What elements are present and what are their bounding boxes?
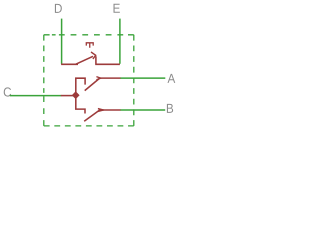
- node C junction diamond: [72, 91, 80, 99]
- component pin stub B: [99, 109, 121, 111]
- push switch S1 blade: [75, 56, 93, 64]
- changeover contact to A: pole riser and bracket: [76, 78, 85, 95]
- changeover contact to B: blade arrowhead: [98, 109, 104, 112]
- wire A: [120, 77, 165, 79]
- wire D: [61, 19, 63, 64]
- changeover contact to B: blade: [84, 111, 99, 122]
- pin label B: [167, 104, 173, 113]
- push switch S1 T-plunger: [86, 43, 93, 48]
- changeover contact to A: blade: [85, 79, 100, 91]
- pin label C: [4, 87, 11, 96]
- changeover contact to A: blade arrowhead: [96, 77, 100, 80]
- pin label E: [114, 4, 120, 13]
- push switch S1 left contact: [61, 63, 78, 65]
- pin label D: [55, 4, 62, 13]
- push switch S1 right contact: [95, 56, 120, 64]
- changeover contact to B: pole riser and bracket: [76, 95, 85, 113]
- pin label A: [168, 74, 176, 83]
- component pin stub A: [99, 77, 121, 79]
- subcircuit boundary box: [44, 35, 134, 126]
- wire E: [119, 19, 121, 64]
- wire B: [120, 109, 165, 111]
- push switch S1 blade arrowhead: [91, 52, 96, 59]
- component pin stub C: [61, 95, 76, 97]
- wire C: [10, 95, 61, 97]
